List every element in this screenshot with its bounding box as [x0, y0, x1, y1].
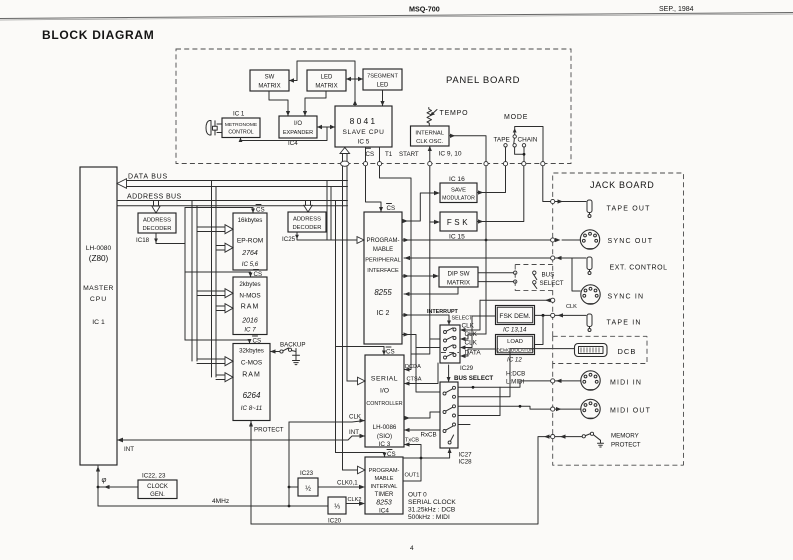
svg-text:CLK OSC.: CLK OSC.	[416, 139, 443, 145]
page header rule	[0, 13, 793, 21]
svg-text:I/O: I/O	[380, 388, 389, 395]
svg-text:(Z80): (Z80)	[89, 254, 109, 263]
svg-text:SELECT: SELECT	[452, 316, 474, 322]
svg-text:MABLE: MABLE	[375, 476, 394, 482]
svg-text:MATRIX: MATRIX	[447, 280, 470, 287]
svg-text:IC20: IC20	[328, 518, 342, 525]
svg-text:IC 5: IC 5	[358, 139, 370, 146]
wire memory protect up into C-MOS RAM	[249, 421, 253, 524]
svg-text:GEN.: GEN.	[150, 492, 165, 498]
wire T1 down to SIO DCDA	[380, 147, 412, 372]
box SW MATRIX	[250, 70, 289, 91]
svg-text:RAM: RAM	[242, 372, 261, 379]
wire SIO RxCB to switch	[404, 428, 440, 432]
wire SW matrix down to I/O expander	[269, 91, 290, 116]
svg-text:2kbytes: 2kbytes	[239, 281, 260, 288]
wire third divider to PIT CLK2	[346, 501, 365, 505]
panel board dashed border	[176, 49, 571, 164]
svg-text:PROGRAM-: PROGRAM-	[369, 468, 400, 474]
wire LED matrix down to I/O expander	[303, 91, 326, 116]
svg-text:IC 3: IC 3	[379, 441, 391, 448]
wire trunk into PIT left	[358, 466, 366, 474]
jack board dashed border	[553, 173, 684, 465]
svg-text:LOAD: LOAD	[507, 339, 523, 345]
svg-text:IC22, 23: IC22, 23	[142, 473, 166, 480]
svg-text:INTERVAL: INTERVAL	[371, 484, 398, 490]
wire memory protect long run to C-MOS RAM	[251, 435, 551, 525]
svg-text:C-MOS: C-MOS	[241, 360, 262, 367]
svg-text:CLK: CLK	[566, 304, 577, 310]
svg-text:2016: 2016	[241, 318, 258, 325]
svg-text:DECODER: DECODER	[293, 225, 322, 231]
svg-text:IC18: IC18	[136, 237, 150, 244]
svg-text:CS: CS	[366, 151, 375, 158]
box EP-ROM 2764 IC5,6	[233, 213, 267, 270]
wire 8255 interrupt to IC29	[402, 313, 451, 325]
svg-text:MATRIX: MATRIX	[258, 84, 280, 90]
wire internal clk vertical to IC29	[460, 166, 486, 341]
svg-text:T1: T1	[385, 151, 393, 158]
box third divider IC20	[328, 497, 346, 514]
svg-text:LH-0080: LH-0080	[86, 245, 112, 252]
box LOAD DEMODULATOR IC12	[496, 335, 535, 355]
address bus double line from CPU	[117, 201, 348, 206]
wire save modulator output to tape contact	[477, 166, 506, 195]
svg-text:SEP., 1984: SEP., 1984	[659, 6, 694, 13]
svg-text:4: 4	[410, 545, 414, 552]
wire midi out line	[555, 408, 581, 410]
svg-text:IC 15: IC 15	[449, 234, 465, 241]
DIN connector SYNC OUT	[580, 230, 599, 249]
wire select line under IC27	[403, 448, 452, 459]
svg-text:CONTROL: CONTROL	[228, 130, 253, 136]
svg-text:TIMER: TIMER	[375, 492, 394, 498]
svg-text:INTERFACE: INTERFACE	[367, 268, 399, 274]
wire expander feedback to metronome	[239, 127, 327, 142]
wire switch to DCB connector	[458, 349, 574, 397]
box ADDRESS DECODER IC25	[288, 212, 326, 232]
svg-text:SAVE: SAVE	[451, 188, 466, 194]
svg-text:IC 8~11: IC 8~11	[241, 405, 262, 412]
wire ext control line to 8255	[404, 256, 562, 260]
svg-text:EP-ROM: EP-ROM	[237, 238, 263, 245]
svg-text:SLAVE CPU: SLAVE CPU	[343, 129, 385, 136]
wire LOAD DEMOD left to IC29 data	[460, 349, 496, 358]
svg-text:CLK: CLK	[462, 323, 475, 330]
data bus pair down to 8255	[327, 181, 331, 241]
svg-text:PROTECT: PROTECT	[254, 427, 284, 434]
svg-text:LH-0086: LH-0086	[373, 424, 397, 431]
svg-text:7SEGMENT: 7SEGMENT	[367, 74, 398, 80]
svg-text:LED: LED	[321, 75, 333, 81]
wire switch to MIDI OUT	[458, 405, 562, 411]
svg-text:CPU: CPU	[90, 296, 107, 303]
wire 8255 port B to IC27 area	[402, 332, 440, 392]
svg-text:IC4: IC4	[379, 508, 389, 515]
svg-text:8253: 8253	[376, 500, 392, 507]
svg-text:CLOCK: CLOCK	[147, 484, 168, 490]
svg-text:H:DCB: H:DCB	[506, 371, 525, 378]
svg-text:LED: LED	[377, 83, 389, 89]
box half divider IC23	[298, 478, 318, 496]
phone jack TAPE IN	[587, 314, 592, 332]
wire 8041 to SW matrix scan rail	[289, 61, 357, 106]
box METRONOME CONTROL	[222, 118, 260, 138]
wire LED matrix / 7seg bidirectional bus	[346, 77, 363, 81]
variable resistor TEMPO	[427, 108, 437, 127]
wire midi in line	[555, 380, 581, 382]
svg-text:DATA: DATA	[465, 350, 482, 357]
svg-text:ADDRESS: ADDRESS	[143, 218, 171, 224]
svg-text:BLOCK DIAGRAM: BLOCK DIAGRAM	[42, 28, 154, 42]
box 7SEGMENT LED	[363, 69, 402, 90]
wire FSK DEM left to IC29	[460, 316, 496, 350]
box 8041 SLAVE CPU	[335, 106, 392, 147]
wire SIO TxDB out to switch	[404, 412, 440, 420]
wire START up into clk osc	[428, 146, 432, 164]
wire CTSA from IC29	[404, 363, 438, 386]
svg-text:IC 12: IC 12	[507, 357, 522, 364]
bus arrow into address decoder IC18	[152, 206, 160, 213]
svg-text:IC 1: IC 1	[233, 111, 245, 118]
svg-text:START: START	[399, 151, 419, 158]
bus arrow into address decoder IC25	[304, 205, 312, 212]
box IC27 IC28 bus switches	[440, 382, 458, 448]
wire DIP SW matrix bottom to 8255	[404, 287, 458, 296]
svg-text:DCDA: DCDA	[405, 364, 421, 370]
svg-text:SERIAL: SERIAL	[371, 376, 398, 383]
box 8255 PPI IC2	[364, 212, 402, 344]
svg-text:PROTECT: PROTECT	[611, 442, 641, 449]
svg-text:SYNC IN: SYNC IN	[608, 294, 645, 301]
bus arrows into C-MOS RAM	[197, 357, 233, 382]
svg-text:IC28: IC28	[459, 459, 473, 466]
svg-text:INT: INT	[349, 429, 359, 436]
address bus pair down	[192, 201, 197, 362]
wire select trunk to SIO CS	[336, 347, 387, 356]
svg-text:CLK0,1: CLK0,1	[337, 480, 358, 487]
wire 8255 to save modulator and fsk	[402, 191, 440, 223]
box SERIAL I/O CONTROLLER IC3	[365, 355, 404, 448]
svg-text:MATRIX: MATRIX	[315, 84, 337, 90]
svg-text:16kbytes: 16kbytes	[238, 217, 263, 224]
svg-text:IC 9, 10: IC 9, 10	[439, 151, 462, 158]
svg-text:32kbytes: 32kbytes	[239, 348, 264, 355]
svg-text:DCB: DCB	[618, 347, 637, 356]
wire CS to cmos ram	[185, 339, 252, 344]
wire half divider to PIT CLK0,1	[318, 485, 365, 489]
svg-text:PROGRAM-: PROGRAM-	[367, 238, 400, 244]
box SAVE MODULATOR	[440, 183, 477, 203]
memory protect switch	[555, 432, 604, 447]
svg-text:FSK: FSK	[447, 218, 470, 227]
wire 8041 CS line to 8255 CS	[366, 147, 384, 212]
bus arrows into N-MOS RAM	[197, 289, 233, 313]
svg-text:SYNC OUT: SYNC OUT	[608, 238, 654, 245]
svg-text:IC25: IC25	[282, 236, 296, 243]
wire 8255 to sync out	[402, 238, 561, 242]
node circles on jack border	[551, 199, 555, 438]
svg-text:CHAIN: CHAIN	[518, 137, 538, 144]
svg-text:RxCB: RxCB	[421, 432, 437, 439]
svg-text:CLK: CLK	[465, 331, 478, 338]
labels CLK CLK CLK DATA	[462, 323, 482, 357]
svg-text:IC29: IC29	[460, 365, 474, 372]
svg-text:IC 5,6: IC 5,6	[242, 261, 259, 268]
svg-text:MSQ-700: MSQ-700	[409, 5, 440, 14]
wire switch row stubs	[458, 387, 500, 424]
svg-text:MIDI IN: MIDI IN	[610, 380, 642, 387]
svg-text:OUT 0: OUT 0	[408, 492, 427, 499]
svg-text:PANEL BOARD: PANEL BOARD	[446, 75, 520, 86]
svg-text:SELECT: SELECT	[540, 280, 564, 287]
svg-text:ADDRESS: ADDRESS	[293, 217, 321, 223]
box FSK IC15	[440, 212, 477, 231]
wire PIT OUT1 to SIO TxCB	[403, 442, 421, 481]
phone jack TAPE OUT	[587, 200, 592, 218]
8041 data bus fat arrow down through panel border	[340, 148, 350, 471]
svg-text:BACKUP: BACKUP	[280, 342, 305, 349]
wire sync out into DIN	[562, 239, 580, 241]
svg-text:8255: 8255	[374, 288, 392, 297]
svg-text:4MHz: 4MHz	[212, 498, 229, 505]
wire CS to nmos ram	[185, 272, 253, 277]
box PROGRAMMABLE INTERVAL TIMER 8253 IC4	[365, 457, 403, 515]
svg-text:MODE: MODE	[504, 114, 528, 121]
box MASTER CPU IC1	[80, 167, 117, 465]
svg-text:MIDI OUT: MIDI OUT	[610, 408, 651, 415]
svg-text:CONTROLLER: CONTROLLER	[366, 401, 402, 407]
svg-text:6264: 6264	[243, 391, 261, 400]
svg-text:TAPE: TAPE	[494, 137, 510, 144]
svg-text:500kHz : MIDI: 500kHz : MIDI	[408, 514, 450, 521]
svg-text:IC27: IC27	[459, 452, 473, 459]
svg-text:ADDRESS BUS: ADDRESS BUS	[127, 194, 182, 201]
svg-text:INTERRUPT: INTERRUPT	[427, 309, 459, 315]
CS select trunk vertical	[184, 208, 186, 341]
svg-text:CTSA: CTSA	[407, 377, 422, 383]
wire ext control jack branch	[555, 258, 586, 291]
wire clk osc output	[449, 134, 486, 162]
svg-text:⅓: ⅓	[334, 504, 340, 511]
wire bus select arrow into IC27	[447, 365, 451, 382]
bus select switch pair	[514, 265, 553, 291]
box I/O EXPANDER	[279, 116, 317, 138]
wire I/O expander to 8041 bidirectional	[317, 125, 335, 129]
svg-text:EXPANDER: EXPANDER	[283, 130, 313, 136]
wire 7seg LED down to 8041	[380, 90, 384, 106]
svg-text:SW: SW	[265, 75, 275, 81]
svg-text:IC 13,14: IC 13,14	[503, 327, 527, 334]
backup switch and battery	[270, 348, 300, 365]
svg-text:MEMORY: MEMORY	[611, 433, 639, 440]
node circles on panel border	[341, 161, 545, 166]
wire 4MHz clock to SIO CLK	[288, 419, 365, 506]
bus arrows into EP-ROM	[197, 225, 233, 253]
svg-text:OUT1: OUT1	[405, 473, 420, 479]
svg-text:MASTER: MASTER	[83, 285, 114, 292]
DCB dashed box	[553, 336, 647, 363]
select trunk vertical	[335, 201, 337, 453]
4MHz line	[98, 505, 328, 508]
svg-text:INTERNAL: INTERNAL	[415, 131, 444, 137]
data bus pair down	[212, 181, 217, 378]
svg-text:CLK2: CLK2	[348, 497, 362, 503]
svg-text:IC 2: IC 2	[377, 310, 390, 317]
svg-text:INT: INT	[124, 446, 134, 453]
svg-text:φ: φ	[102, 475, 107, 484]
svg-text:PERIPHERAL: PERIPHERAL	[365, 258, 400, 264]
box CLOCK GEN	[138, 480, 177, 499]
svg-text:IC 1: IC 1	[92, 319, 105, 326]
mode selector switch	[504, 127, 543, 162]
svg-text:N-MOS: N-MOS	[239, 293, 260, 300]
box FSK DEM IC13,14	[496, 306, 535, 325]
svg-text:TEMPO: TEMPO	[440, 110, 469, 117]
svg-text:L:MIDI: L:MIDI	[506, 379, 525, 386]
svg-text:CS: CS	[387, 205, 396, 212]
box ADDRESS DECODER IC18	[138, 213, 176, 233]
svg-text:SERIAL CLOCK: SERIAL CLOCK	[408, 499, 456, 506]
box DIP SW MATRIX	[439, 267, 478, 287]
svg-text:I/O: I/O	[294, 121, 302, 127]
DIN connector MIDI OUT	[581, 399, 600, 418]
svg-text:TAPE OUT: TAPE OUT	[607, 206, 651, 213]
INT line CPU to SIO	[117, 434, 365, 443]
wire CS to eprom	[185, 208, 255, 214]
wire FSK DEM output to tape in line	[535, 314, 551, 345]
DIN connector MIDI IN	[581, 371, 600, 390]
svg-text:DIP SW: DIP SW	[448, 271, 470, 278]
wire tape out into jack	[555, 199, 586, 203]
svg-text:DECODER: DECODER	[143, 226, 172, 232]
box IC29 interrupt select switches	[440, 325, 460, 363]
svg-text:MABLE: MABLE	[373, 247, 393, 253]
wires DIP SW matrix to bus select switches	[478, 273, 514, 282]
wire sync in clk line	[460, 298, 551, 332]
svg-text:IC23: IC23	[300, 470, 314, 477]
DIN connector SYNC IN	[581, 285, 600, 304]
box C-MOS RAM 6264 IC8~11	[233, 344, 270, 421]
box N-MOS RAM 2016 IC7	[233, 277, 267, 335]
svg-text:IC 16: IC 16	[449, 176, 465, 183]
svg-text:TAPE IN: TAPE IN	[607, 320, 642, 327]
svg-text:IC 7: IC 7	[244, 327, 256, 334]
svg-text:IC4: IC4	[288, 140, 298, 147]
DCB connector	[575, 344, 608, 357]
wire FSK output to chain contact	[477, 166, 524, 224]
speaker icon	[206, 121, 222, 136]
svg-text:TxCB: TxCB	[405, 438, 419, 444]
wire mode common to tape out	[543, 166, 551, 202]
svg-text:MODULATOR: MODULATOR	[442, 196, 475, 202]
wire into half divider	[289, 486, 298, 488]
svg-text:METRONOME: METRONOME	[225, 122, 258, 128]
svg-text:EXT. CONTROL: EXT. CONTROL	[610, 265, 668, 272]
data bus double line with open arrow into CPU	[117, 179, 348, 189]
phone jack EXT CONTROL	[587, 257, 592, 275]
wire trunk into SIO left	[358, 377, 366, 385]
svg-text:DATA BUS: DATA BUS	[128, 174, 168, 181]
wire 8255 to DIP SW matrix	[402, 274, 439, 278]
svg-text:31.25kHz : DCB: 31.25kHz : DCB	[408, 507, 456, 514]
svg-text:½: ½	[305, 485, 311, 493]
svg-text:2764: 2764	[241, 250, 258, 257]
svg-text:JACK BOARD: JACK BOARD	[590, 180, 655, 190]
svg-text:RAM: RAM	[241, 304, 260, 311]
wire select trunk to PIT CS	[336, 453, 387, 458]
wire decoder IC25 output to 8255	[295, 232, 364, 243]
wire tape in line	[555, 313, 586, 317]
phi clock wire below CPU	[96, 466, 138, 506]
MIDI dashed box	[553, 364, 684, 466]
box INTERNAL CLK OSC IC 9,10	[411, 126, 450, 146]
svg-text:CLK: CLK	[465, 340, 478, 347]
svg-text:FSK DEM.: FSK DEM.	[499, 313, 530, 320]
svg-text:BUS SELECT: BUS SELECT	[454, 375, 493, 382]
svg-text:(SIO): (SIO)	[377, 433, 392, 440]
wire decoder IC18 output to CS trunk	[154, 233, 185, 244]
wire switch to MIDI IN	[458, 379, 562, 389]
wire tempo/start line down to FSK and switch area	[411, 166, 440, 354]
box LED MATRIX	[307, 70, 346, 91]
svg-text:8041: 8041	[350, 116, 378, 126]
